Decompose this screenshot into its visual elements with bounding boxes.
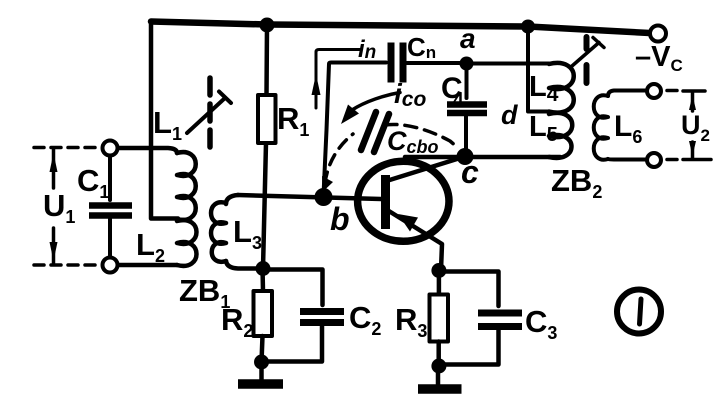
svg-text:b: b	[330, 201, 350, 237]
svg-text:d: d	[501, 100, 518, 130]
svg-text:a: a	[460, 23, 476, 54]
svg-text:4: 4	[453, 90, 464, 111]
svg-text:c: c	[461, 154, 479, 190]
